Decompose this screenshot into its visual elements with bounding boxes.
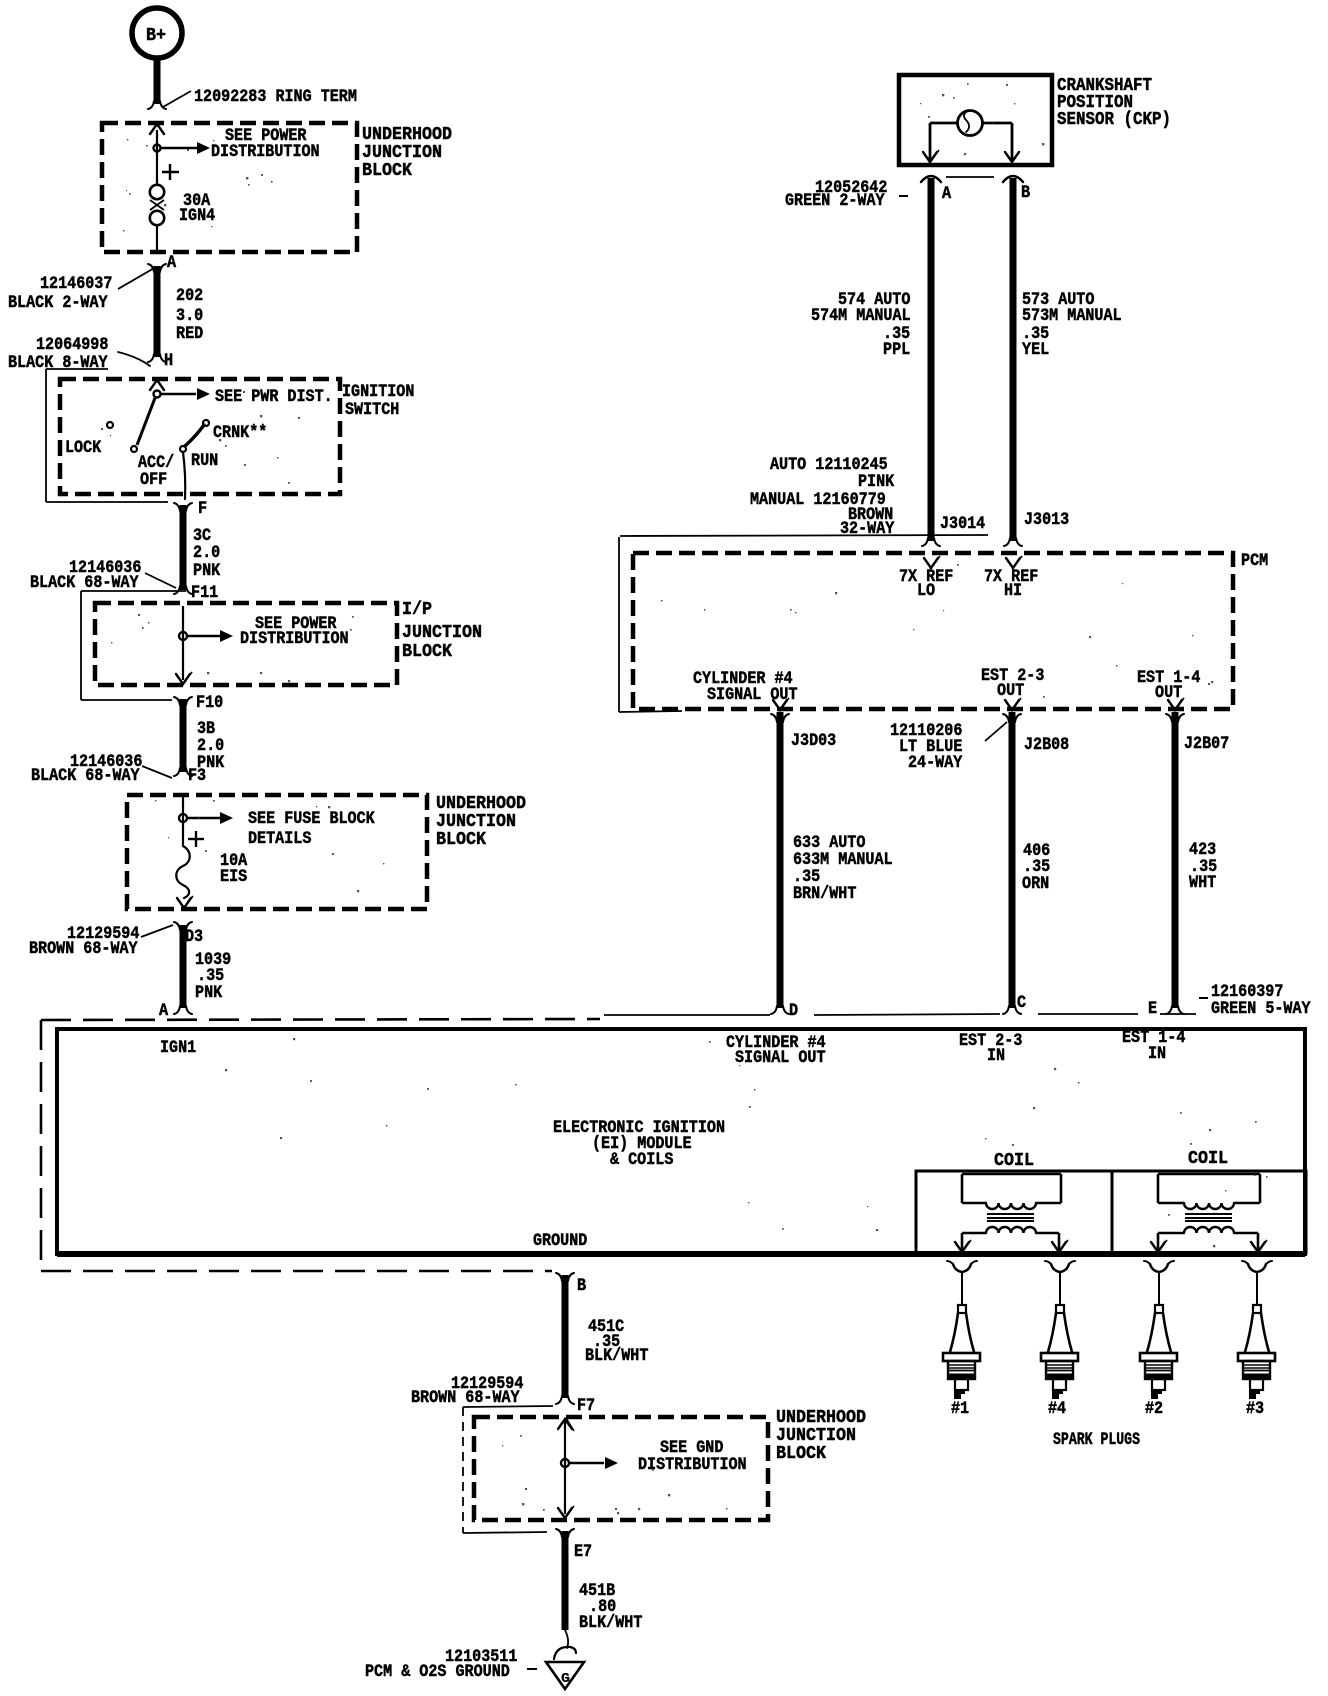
svg-text:F7: F7 [577, 1396, 595, 1416]
svg-text:12064998: 12064998 [36, 335, 108, 355]
svg-text:ORN: ORN [1022, 874, 1049, 894]
svg-text:IN: IN [1148, 1044, 1166, 1064]
svg-text:3.0: 3.0 [176, 306, 203, 326]
svg-text:DISTRIBUTION: DISTRIBUTION [638, 1455, 747, 1475]
svg-text:COIL: COIL [994, 1151, 1034, 1171]
svg-text:DISTRIBUTION: DISTRIBUTION [211, 142, 320, 162]
svg-text:IGNITION: IGNITION [342, 382, 414, 402]
svg-text:I/P: I/P [402, 600, 432, 620]
svg-text:& COILS: & COILS [610, 1150, 674, 1170]
svg-text:SWITCH: SWITCH [345, 400, 399, 420]
svg-text:B: B [577, 1276, 586, 1296]
svg-text:C: C [1017, 993, 1026, 1013]
svg-text:BROWN 68-WAY: BROWN 68-WAY [29, 939, 138, 959]
svg-text:DISTRIBUTION: DISTRIBUTION [240, 629, 349, 649]
svg-text:#1: #1 [951, 1399, 969, 1419]
svg-text:E7: E7 [574, 1542, 592, 1562]
svg-text:JUNCTION: JUNCTION [436, 812, 516, 832]
svg-text:#3: #3 [1246, 1399, 1264, 1419]
svg-text:UNDERHOOD: UNDERHOOD [436, 794, 526, 814]
svg-text:BROWN 68-WAY: BROWN 68-WAY [411, 1388, 520, 1408]
svg-text:LOCK: LOCK [65, 438, 101, 458]
svg-text:BLOCK: BLOCK [776, 1444, 826, 1464]
svg-text:UNDERHOOD: UNDERHOOD [776, 1408, 866, 1428]
svg-text:574M MANUAL: 574M MANUAL [811, 306, 911, 326]
svg-text:IN: IN [987, 1046, 1005, 1066]
svg-text:BLACK 8-WAY: BLACK 8-WAY [8, 353, 108, 373]
svg-text:12146037: 12146037 [40, 274, 112, 294]
svg-text:G: G [561, 1672, 570, 1687]
svg-text:F11: F11 [191, 583, 218, 603]
svg-text:EIS: EIS [220, 867, 247, 887]
svg-text:BLACK 68-WAY: BLACK 68-WAY [31, 766, 140, 786]
svg-text:#2: #2 [1145, 1399, 1163, 1419]
svg-text:BLK/WHT: BLK/WHT [585, 1346, 649, 1366]
svg-text:JUNCTION: JUNCTION [362, 143, 442, 163]
svg-text:GREEN 2-WAY: GREEN 2-WAY [785, 191, 885, 211]
svg-text:BLOCK: BLOCK [436, 830, 486, 850]
svg-text:PCM: PCM [1241, 551, 1268, 571]
svg-text:B+: B+ [146, 26, 166, 46]
svg-text:YEL: YEL [1022, 340, 1049, 360]
svg-text:SPARK PLUGS: SPARK PLUGS [1053, 1430, 1140, 1450]
svg-text:GROUND: GROUND [533, 1231, 587, 1251]
svg-text:F10: F10 [196, 693, 223, 713]
svg-text:HI: HI [1004, 581, 1022, 601]
svg-text:A: A [167, 253, 176, 273]
svg-text:J3014: J3014 [940, 514, 985, 534]
svg-text:#4: #4 [1048, 1399, 1066, 1419]
svg-text:BLACK 68-WAY: BLACK 68-WAY [30, 573, 139, 593]
svg-text:A: A [159, 1001, 168, 1021]
svg-text:DETAILS: DETAILS [248, 829, 312, 849]
svg-text:BLOCK: BLOCK [362, 161, 412, 181]
svg-text:PNK: PNK [195, 983, 222, 1003]
svg-text:573M MANUAL: 573M MANUAL [1022, 306, 1122, 326]
svg-text:J3013: J3013 [1024, 510, 1069, 530]
svg-text:D3: D3 [185, 927, 203, 947]
svg-text:F: F [198, 499, 207, 519]
svg-text:24-WAY: 24-WAY [908, 753, 963, 773]
svg-text:PNK: PNK [193, 561, 220, 581]
svg-text:UNDERHOOD: UNDERHOOD [362, 125, 452, 145]
svg-text:LO: LO [917, 581, 935, 601]
svg-text:SEE PWR DIST.: SEE PWR DIST. [215, 387, 333, 407]
svg-text:BRN/WHT: BRN/WHT [793, 884, 857, 904]
svg-text:PPL: PPL [883, 340, 910, 360]
svg-text:PINK: PINK [858, 472, 894, 492]
svg-text:WHT: WHT [1189, 873, 1216, 893]
svg-text:J3D03: J3D03 [791, 731, 836, 751]
svg-text:RED: RED [176, 324, 203, 344]
svg-text:IGN4: IGN4 [179, 206, 215, 226]
svg-text:B: B [1021, 183, 1030, 203]
svg-text:202: 202 [176, 286, 203, 306]
svg-text:2.0: 2.0 [193, 543, 220, 563]
svg-text:GREEN 5-WAY: GREEN 5-WAY [1211, 999, 1311, 1019]
svg-text:JUNCTION: JUNCTION [776, 1426, 856, 1446]
svg-text:E: E [1148, 999, 1157, 1019]
svg-text:D: D [789, 1001, 798, 1021]
svg-text:A: A [942, 184, 951, 204]
svg-text:SENSOR (CKP): SENSOR (CKP) [1057, 110, 1171, 130]
svg-text:SIGNAL OUT: SIGNAL OUT [735, 1048, 826, 1068]
svg-text:PCM & O2S GROUND: PCM & O2S GROUND [365, 1662, 510, 1682]
svg-text:J2B08: J2B08 [1024, 735, 1069, 755]
svg-text:BLACK 2-WAY: BLACK 2-WAY [8, 293, 108, 313]
svg-text:JUNCTION: JUNCTION [402, 623, 482, 643]
svg-text:IGN1: IGN1 [160, 1038, 196, 1058]
svg-text:12092283 RING TERM: 12092283 RING TERM [194, 87, 357, 107]
svg-text:BLOCK: BLOCK [402, 642, 452, 662]
svg-text:OFF: OFF [140, 470, 167, 490]
svg-text:SEE FUSE BLOCK: SEE FUSE BLOCK [248, 809, 375, 829]
svg-text:RUN: RUN [191, 451, 218, 471]
svg-text:BLK/WHT: BLK/WHT [579, 1613, 643, 1633]
svg-text:J2B07: J2B07 [1184, 734, 1229, 754]
svg-text:COIL: COIL [1188, 1149, 1228, 1169]
